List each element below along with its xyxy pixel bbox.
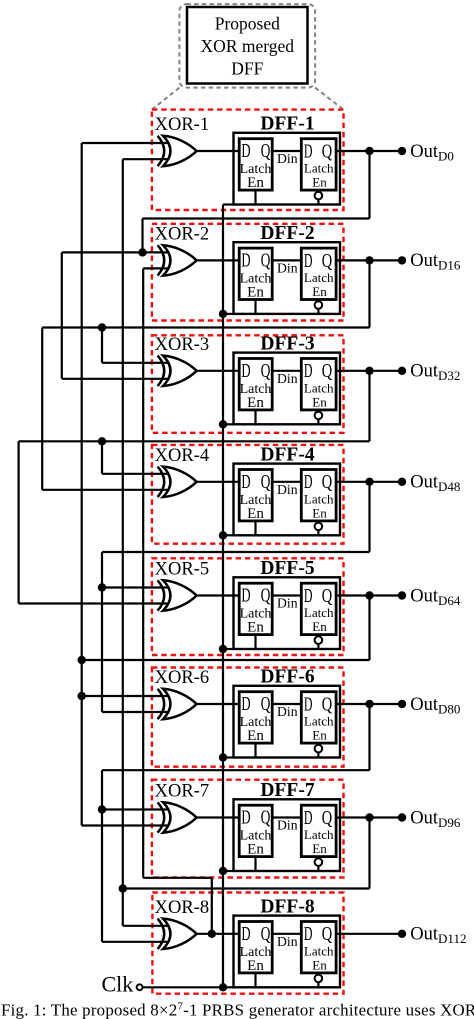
svg-text:XOR-1: XOR-1 <box>155 115 209 135</box>
svg-text:Latch: Latch <box>304 270 334 285</box>
svg-text:Q: Q <box>261 360 271 382</box>
svg-text:DFF-7: DFF-7 <box>260 780 314 801</box>
svg-text:Q: Q <box>322 471 333 493</box>
svg-text:Q: Q <box>322 360 333 382</box>
svg-text:Q: Q <box>322 693 333 715</box>
svg-text:Proposed: Proposed <box>215 14 280 34</box>
svg-text:D: D <box>304 693 313 715</box>
svg-text:En: En <box>312 728 327 743</box>
svg-text:En: En <box>247 175 264 191</box>
svg-text:Latch: Latch <box>304 491 334 506</box>
svg-text:DFF: DFF <box>231 59 263 79</box>
svg-text:Din: Din <box>277 818 298 833</box>
svg-text:Din: Din <box>277 596 298 611</box>
svg-text:D: D <box>241 140 250 162</box>
svg-text:Latch: Latch <box>304 605 334 620</box>
svg-text:D: D <box>241 807 250 829</box>
svg-text:Q: Q <box>261 250 271 272</box>
svg-text:Latch: Latch <box>304 380 334 395</box>
svg-text:DFF-1: DFF-1 <box>260 114 314 135</box>
svg-text:XOR-8: XOR-8 <box>155 898 209 918</box>
svg-text:D: D <box>241 923 250 945</box>
svg-text:XOR-4: XOR-4 <box>155 446 209 466</box>
svg-text:D: D <box>241 693 250 715</box>
svg-text:En: En <box>312 175 327 190</box>
svg-text:D: D <box>304 360 313 382</box>
svg-text:Q: Q <box>261 140 271 162</box>
svg-text:XOR merged: XOR merged <box>201 36 295 56</box>
svg-text:Fig. 1: The proposed 8×27-1 PR: Fig. 1: The proposed 8×27-1 PRBS generat… <box>1 1000 474 1019</box>
svg-text:DFF-3: DFF-3 <box>260 334 314 355</box>
svg-text:En: En <box>312 284 327 299</box>
svg-text:D: D <box>241 250 250 272</box>
svg-text:Din: Din <box>277 482 298 497</box>
svg-text:En: En <box>312 619 327 634</box>
svg-text:XOR-6: XOR-6 <box>155 668 209 688</box>
svg-text:DFF-8: DFF-8 <box>260 897 314 918</box>
svg-text:En: En <box>247 284 264 300</box>
svg-text:Din: Din <box>277 151 298 166</box>
svg-text:En: En <box>312 505 327 520</box>
svg-text:Q: Q <box>261 807 271 829</box>
svg-text:Q: Q <box>261 585 271 607</box>
svg-text:En: En <box>247 842 264 858</box>
svg-text:Din: Din <box>277 261 298 276</box>
svg-text:Q: Q <box>261 693 271 715</box>
svg-text:En: En <box>312 841 327 856</box>
svg-text:D: D <box>241 585 250 607</box>
svg-text:XOR-5: XOR-5 <box>155 560 209 580</box>
svg-text:Din: Din <box>277 371 298 386</box>
svg-text:En: En <box>247 395 264 411</box>
svg-text:Q: Q <box>322 923 333 945</box>
svg-text:Q: Q <box>322 807 333 829</box>
svg-text:D: D <box>304 923 313 945</box>
svg-text:Din: Din <box>277 934 298 949</box>
svg-text:En: En <box>247 620 264 636</box>
svg-text:En: En <box>312 957 327 972</box>
svg-text:Latch: Latch <box>304 827 334 842</box>
svg-text:D: D <box>304 807 313 829</box>
svg-text:En: En <box>247 728 264 744</box>
svg-text:DFF-2: DFF-2 <box>260 223 314 244</box>
svg-text:XOR-3: XOR-3 <box>155 335 209 355</box>
svg-text:Q: Q <box>261 923 271 945</box>
svg-text:Latch: Latch <box>304 714 334 729</box>
svg-text:Din: Din <box>277 704 298 719</box>
svg-text:Q: Q <box>322 250 333 272</box>
svg-text:Clk: Clk <box>102 971 134 996</box>
svg-text:D: D <box>241 360 250 382</box>
svg-text:Q: Q <box>322 585 333 607</box>
svg-text:DFF-4: DFF-4 <box>260 445 314 466</box>
svg-text:XOR-2: XOR-2 <box>155 224 209 244</box>
svg-text:En: En <box>247 958 264 974</box>
svg-text:DFF-6: DFF-6 <box>260 667 314 688</box>
svg-text:DFF-5: DFF-5 <box>260 558 314 579</box>
svg-text:XOR-7: XOR-7 <box>155 782 209 802</box>
svg-text:D: D <box>304 140 313 162</box>
svg-text:En: En <box>312 394 327 409</box>
svg-text:D: D <box>304 471 313 493</box>
svg-text:Latch: Latch <box>304 943 334 958</box>
svg-text:Q: Q <box>261 471 271 493</box>
svg-text:En: En <box>247 506 264 522</box>
svg-text:D: D <box>304 585 313 607</box>
svg-text:D: D <box>304 250 313 272</box>
svg-text:Q: Q <box>322 140 333 162</box>
svg-text:Latch: Latch <box>304 161 334 176</box>
svg-text:D: D <box>241 471 250 493</box>
